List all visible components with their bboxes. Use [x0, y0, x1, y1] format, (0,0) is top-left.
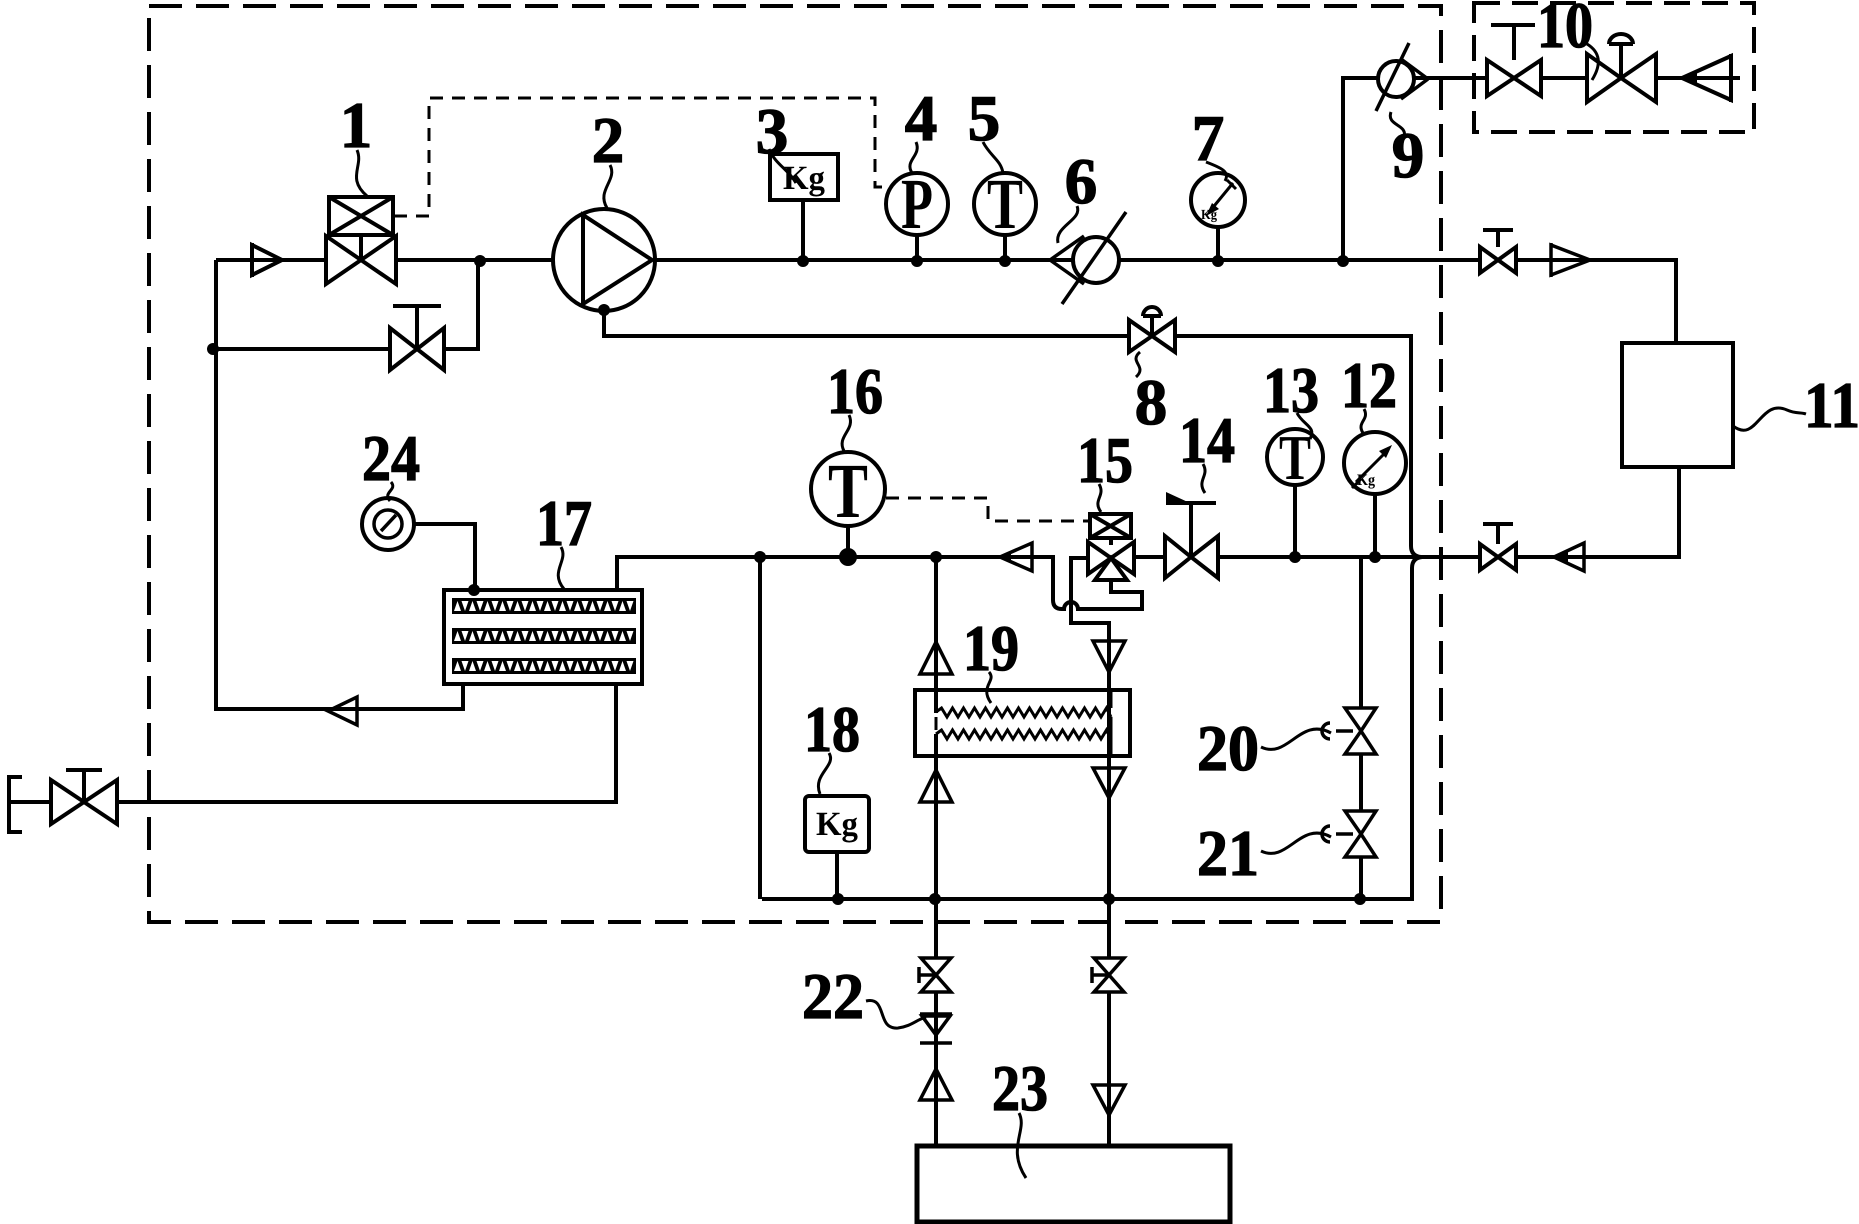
- svg-text:17: 17: [536, 488, 592, 560]
- svg-text:21: 21: [1197, 818, 1259, 890]
- pipe: Kg box 3 stem: [801, 200, 805, 260]
- svg-text:T: T: [1279, 422, 1311, 493]
- svg-text:1: 1: [340, 90, 373, 162]
- svg-text:2: 2: [592, 105, 625, 177]
- leader line for label 8: [1136, 352, 1140, 377]
- pipe: T13 stem: [1293, 485, 1297, 557]
- bypass hand valve: [390, 306, 444, 370]
- svg-text:Kg: Kg: [1357, 472, 1375, 489]
- leader line for label 11: [1733, 408, 1806, 430]
- pipe: external fill line y=802: [9, 684, 616, 802]
- gauge 7: [1191, 173, 1245, 227]
- leader line for label 15: [1098, 484, 1101, 512]
- hand valve top right: [1480, 230, 1516, 273]
- leader line for label 20: [1261, 729, 1331, 749]
- motor-operated valve 1: [326, 197, 396, 284]
- temperature gauge T 5: [974, 164, 1036, 244]
- pipe: middle line right of 3-way valve: [1134, 467, 1679, 557]
- solenoid 3-way valve 15: [1088, 514, 1134, 580]
- junction node (1343,261): [1337, 255, 1349, 267]
- junction node (936,557): [930, 551, 942, 563]
- leader line for label 24: [388, 482, 393, 501]
- check valve top right: [1551, 243, 1590, 277]
- Kg weighing box 18: [805, 796, 869, 852]
- svg-text:11: 11: [1804, 370, 1859, 442]
- svg-text:10: 10: [1537, 0, 1593, 62]
- svg-text:22: 22: [802, 961, 864, 1033]
- check valve before box 11 outlet: [1554, 543, 1584, 571]
- pipe: T gauge 5 stem: [1003, 235, 1007, 260]
- svg-text:16: 16: [827, 356, 883, 428]
- leader line for label 6: [1058, 206, 1078, 243]
- flow regulator 9: [1376, 43, 1428, 111]
- svg-text:8: 8: [1135, 367, 1168, 439]
- check valve on HX17 return: [328, 697, 357, 725]
- hand valve 14: [1165, 492, 1218, 578]
- svg-text:T: T: [828, 447, 868, 534]
- leader line for label 9: [1390, 112, 1404, 137]
- flow arrow down D3: [1093, 1085, 1125, 1115]
- pipe: pump discharge lower line y=336: [604, 311, 1421, 557]
- heat exchanger 19: [915, 690, 1130, 756]
- leader line for label 14: [1202, 464, 1205, 493]
- leader line for label 17: [558, 547, 564, 589]
- leader line for label 16: [842, 415, 850, 451]
- svg-text:23: 23: [992, 1053, 1048, 1125]
- hand valve on middle line (right of border): [1480, 524, 1516, 570]
- pipe: Kg box 18 stem: [835, 852, 839, 899]
- junction node (838,899): [832, 893, 844, 905]
- svg-text:6: 6: [1065, 146, 1098, 218]
- junction node (1218,261): [1212, 255, 1224, 267]
- svg-text:14: 14: [1179, 405, 1235, 477]
- flow meter valve 6: [1050, 212, 1126, 304]
- pipe: P gauge 4 stem: [915, 235, 919, 260]
- leader line for label 13: [1297, 413, 1312, 439]
- svg-text:7: 7: [1192, 103, 1225, 175]
- junction node T16 (848,557): [839, 548, 857, 566]
- pressure gauge P 4: [886, 164, 948, 244]
- leader line for label 22: [866, 1000, 926, 1028]
- pipe: gauge 24 connection: [414, 524, 475, 590]
- junction node (1375,557): [1369, 551, 1381, 563]
- leader line for label 12: [1361, 409, 1366, 433]
- flow arrow up A3: [920, 1069, 952, 1100]
- quick coupling 22: [920, 1014, 952, 1043]
- svg-text:24: 24: [362, 423, 420, 495]
- svg-text:Kg: Kg: [816, 806, 858, 843]
- control line: valve 1 to P gauge 4: [394, 98, 889, 216]
- leader line for label 18: [818, 753, 830, 794]
- pipe: pump bypass: [213, 262, 478, 349]
- junction node (1109,899): [1103, 893, 1115, 905]
- junction node (1360,899): [1354, 893, 1366, 905]
- drain valve right: [1092, 958, 1124, 992]
- svg-text:5: 5: [968, 83, 1001, 155]
- svg-text:3: 3: [756, 96, 789, 168]
- pipe: HX19 left line: [934, 557, 938, 1146]
- junction node (917,261): [911, 255, 923, 267]
- box 10: check valve: [1682, 54, 1731, 102]
- pipe: valves 20/21 branch: [1359, 557, 1363, 899]
- globe valve 8: [1129, 307, 1175, 352]
- leader line for label 21: [1261, 833, 1331, 853]
- external fill valve: [51, 770, 117, 824]
- junction node (1295,557): [1289, 551, 1301, 563]
- pipe stub bracket: [9, 777, 22, 832]
- flow arrow down D1: [1093, 641, 1125, 672]
- svg-text:T: T: [987, 164, 1023, 244]
- Kg weighing box 3: [770, 154, 838, 200]
- junction node (604,310): [598, 304, 610, 316]
- svg-text:18: 18: [804, 694, 860, 766]
- svg-text:19: 19: [963, 613, 1019, 685]
- pipe: left drop from middle line: [758, 557, 762, 899]
- flow arrow up A1: [920, 642, 952, 674]
- temperature gauge T 16: [811, 447, 885, 534]
- leader line for label 19: [987, 672, 991, 703]
- heat exchanger 17: [444, 590, 642, 684]
- flow arrow up A2: [920, 770, 952, 802]
- junction node (935,899): [929, 893, 941, 905]
- svg-text:Kg: Kg: [1201, 208, 1217, 223]
- temperature gauge T 13: [1267, 422, 1323, 493]
- junction node (474,590): [468, 584, 480, 596]
- flow arrow down D2: [1093, 768, 1125, 798]
- drain valve left (above coupling 22): [919, 958, 951, 992]
- pipe: gauge 7 stem: [1216, 227, 1220, 260]
- junction node (760,557): [754, 551, 766, 563]
- leader line for label 2: [604, 165, 612, 208]
- pipe: main supply line y=260: [216, 260, 1676, 343]
- pipe: bottom header y=899: [762, 557, 1422, 899]
- check valve on middle line: [1000, 543, 1032, 571]
- svg-text:12: 12: [1341, 350, 1397, 422]
- pipe: riser to flow regulator 9: [1343, 78, 1740, 261]
- svg-text:15: 15: [1077, 425, 1133, 497]
- leader line for label 5: [983, 142, 1003, 173]
- leader line for label 3: [769, 149, 796, 183]
- svg-text:9: 9: [1392, 120, 1425, 192]
- pipe: 3-way valve left port drain: [1071, 558, 1109, 1146]
- leader line for label 10: [1587, 44, 1598, 80]
- junction node (1005,261): [999, 255, 1011, 267]
- valve 21: [1322, 811, 1376, 857]
- pipe: middle return line y=557: [617, 557, 1142, 609]
- gauge 12: [1344, 432, 1406, 494]
- svg-text:4: 4: [905, 83, 938, 155]
- pump 2: [553, 209, 655, 311]
- control line: T16 to solenoid valve 15: [886, 498, 1090, 521]
- box 10: hand valve: [1487, 25, 1541, 96]
- svg-text:13: 13: [1263, 355, 1319, 427]
- svg-text:20: 20: [1197, 713, 1259, 785]
- pipe: T16 stem: [846, 526, 850, 557]
- svg-text:P: P: [901, 164, 933, 244]
- pipe: gauge 12 stem: [1373, 494, 1377, 557]
- gauge 24: [362, 498, 414, 550]
- dashed box 10 enclosure: [1474, 3, 1754, 132]
- dashed test-rig enclosure border: [149, 6, 1441, 922]
- pipe: left riser and HX17 lower feed: [216, 260, 463, 709]
- svg-text:Kg: Kg: [783, 160, 825, 197]
- leader line for label 23: [1017, 1113, 1026, 1178]
- check valve (inlet, before valve 1): [252, 243, 282, 277]
- valve 20: [1322, 708, 1376, 754]
- water tank 23: [917, 1146, 1230, 1222]
- load box 11: [1622, 343, 1733, 467]
- junction node (480,261): [474, 255, 486, 267]
- box 10: relief valve with dome: [1587, 34, 1656, 102]
- leader line for label 7: [1206, 162, 1226, 181]
- junction node (803,261): [797, 255, 809, 267]
- leader line for label 1: [356, 150, 367, 196]
- leader line for label 4: [910, 142, 917, 173]
- junction node (213,349): [207, 343, 219, 355]
